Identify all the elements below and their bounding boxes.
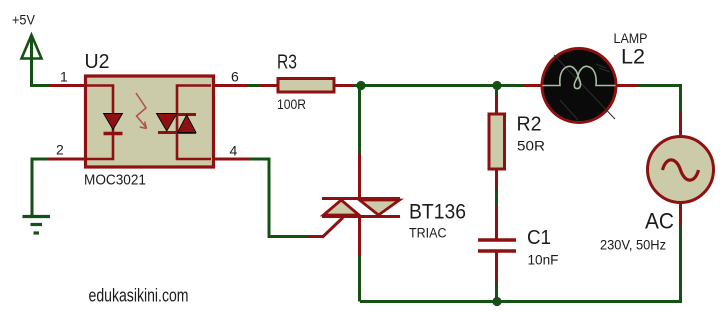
svg-text:100R: 100R [277, 96, 306, 112]
svg-text:AC: AC [645, 209, 674, 234]
svg-text:R3: R3 [277, 52, 297, 74]
svg-text:230V, 50Hz: 230V, 50Hz [600, 237, 666, 253]
svg-text:50R: 50R [517, 138, 545, 154]
svg-text:10nF: 10nF [528, 252, 559, 268]
svg-text:4: 4 [230, 143, 238, 159]
svg-text:BT136: BT136 [409, 201, 466, 224]
svg-text:2: 2 [56, 142, 64, 158]
svg-text:LAMP: LAMP [614, 30, 648, 46]
svg-text:U2: U2 [85, 51, 110, 73]
svg-text:edukasikini.com: edukasikini.com [89, 286, 189, 306]
svg-text:1: 1 [60, 69, 68, 85]
svg-text:L2: L2 [621, 46, 645, 69]
svg-text:TRIAC: TRIAC [409, 226, 447, 241]
svg-text:C1: C1 [527, 227, 551, 249]
svg-text:MOC3021: MOC3021 [84, 172, 146, 189]
svg-text:6: 6 [231, 69, 239, 85]
svg-text:+5V: +5V [12, 12, 36, 28]
svg-text:R2: R2 [517, 114, 542, 136]
